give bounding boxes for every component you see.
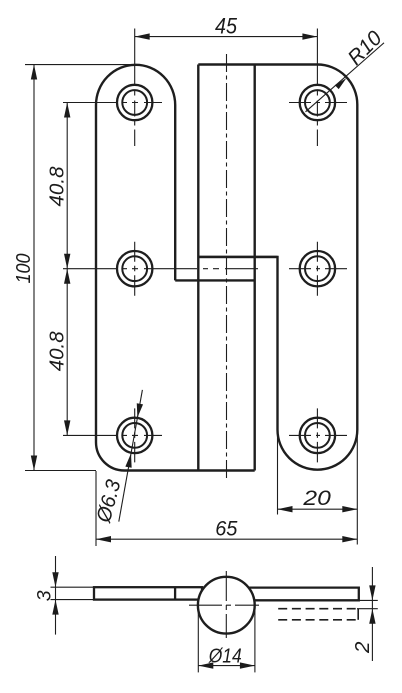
dim 65 left extension — [95, 471, 97, 546]
arrow 20 left — [278, 506, 293, 512]
knuckle column left edge — [197, 65, 199, 471]
dim 14 line — [198, 665, 255, 667]
dim 20 right extension — [356, 432, 358, 545]
hole top-left outer — [117, 85, 152, 120]
arrow 100 top — [31, 65, 37, 80]
centerline h top-left hole — [63, 102, 162, 104]
hole top-right inner — [305, 90, 330, 115]
arrow 20 right — [342, 506, 357, 512]
hole mid-left outer — [117, 251, 152, 286]
arrow dia6.3 bottom — [125, 453, 131, 467]
arrow 14 right — [240, 662, 255, 668]
dim 40.8 line — [66, 103, 68, 436]
dim 100 top extension — [25, 64, 136, 66]
arrow 40.8 bottom down — [64, 420, 70, 435]
lower barrel joint line — [175, 279, 255, 281]
hole mid-right inner — [305, 256, 330, 281]
dim 100 bottom extension — [25, 470, 96, 472]
arrow dia6.3 top — [137, 403, 143, 417]
hole bottom-right inner — [305, 423, 330, 448]
arrow 45 right — [302, 33, 317, 39]
side view left plate divider — [174, 587, 176, 599]
svg-text:45: 45 — [215, 14, 238, 39]
arrow 45 left — [135, 33, 150, 39]
knuckle column right edge — [253, 65, 255, 471]
dim 20 left extension — [277, 432, 279, 515]
dim 45 line — [135, 36, 318, 38]
leader R10 — [306, 43, 385, 112]
centerline v mid-left hole — [134, 242, 136, 296]
side view right plate bar — [244, 588, 359, 601]
centerline h top-right hole — [289, 102, 347, 104]
hole top-right outer — [300, 85, 335, 120]
side view knuckle centerline h — [189, 604, 267, 606]
svg-text:40.8: 40.8 — [45, 166, 68, 207]
svg-text:100: 100 — [12, 253, 35, 284]
svg-text:65: 65 — [215, 517, 238, 540]
svg-text:Ø14: Ø14 — [208, 645, 242, 668]
arrow 100 bottom — [31, 456, 37, 471]
hole top-left inner — [122, 90, 147, 115]
arrow 40.8 top up — [64, 103, 70, 118]
arrow 3 bottom — [52, 600, 58, 615]
side view knuckle centerline v — [225, 571, 227, 639]
dim 3 line — [55, 556, 57, 635]
dim 2 extension bottom — [357, 608, 378, 610]
arrow 14 left — [198, 662, 213, 668]
arrow 65 left — [96, 536, 111, 542]
dim 14 left extension — [197, 607, 199, 672]
upper barrel joint line — [198, 256, 277, 258]
centerline h bottom-left hole — [63, 434, 162, 436]
side view dim 3 extension top — [51, 586, 95, 588]
centerline h mid-left hole — [63, 268, 258, 270]
centerline v top-right hole + 45 extension — [316, 29, 318, 147]
svg-text:20: 20 — [302, 487, 331, 510]
hole bottom-left outer — [117, 418, 152, 453]
right leaf plate outline — [198, 65, 357, 470]
centerline v top-left hole + 45 extension — [134, 29, 136, 147]
hole bottom-right outer — [300, 418, 335, 453]
dim 14 right extension — [254, 607, 256, 672]
dim 20 line — [278, 508, 358, 510]
svg-text:3: 3 — [34, 590, 56, 601]
arrow 3 top — [52, 572, 58, 587]
centerline v bottom-right hole — [316, 408, 318, 462]
centerline h mid-right hole — [289, 268, 347, 270]
centerline h bottom-right hole — [289, 434, 347, 436]
centerline v bottom-left hole — [134, 408, 136, 462]
arrow 2 bottom — [369, 609, 375, 624]
side view hidden leaf dashed rect right edge — [357, 609, 359, 620]
arrow 2 top — [369, 585, 375, 600]
leader dia 6.3 — [119, 390, 143, 522]
hole mid-right outer — [300, 251, 335, 286]
hole mid-left inner — [122, 256, 147, 281]
svg-text:40.8: 40.8 — [45, 331, 68, 372]
arrow R10 — [335, 78, 347, 89]
side view knuckle circle — [198, 577, 255, 634]
dim 65 line — [96, 538, 357, 540]
dim 2 line — [371, 567, 373, 661]
centerline v mid-right hole — [316, 242, 318, 296]
arrow 65 right — [342, 536, 357, 542]
side view dim 3 extension bottom — [51, 599, 95, 601]
arrow 40.8 mid up — [64, 269, 70, 284]
side view hidden leaf dashed rect bottom edge — [278, 619, 358, 621]
svg-text:2: 2 — [351, 641, 374, 654]
dim 100 line — [33, 65, 35, 471]
hole bottom-left inner — [122, 423, 147, 448]
arrow 40.8 mid down — [64, 254, 70, 269]
column axis centerline — [226, 54, 228, 478]
side view hidden leaf dashed rect top edge — [278, 608, 358, 610]
left leaf plate outline — [96, 65, 255, 471]
side view left plate bar — [94, 587, 202, 599]
dim 2 extension top — [359, 599, 378, 601]
